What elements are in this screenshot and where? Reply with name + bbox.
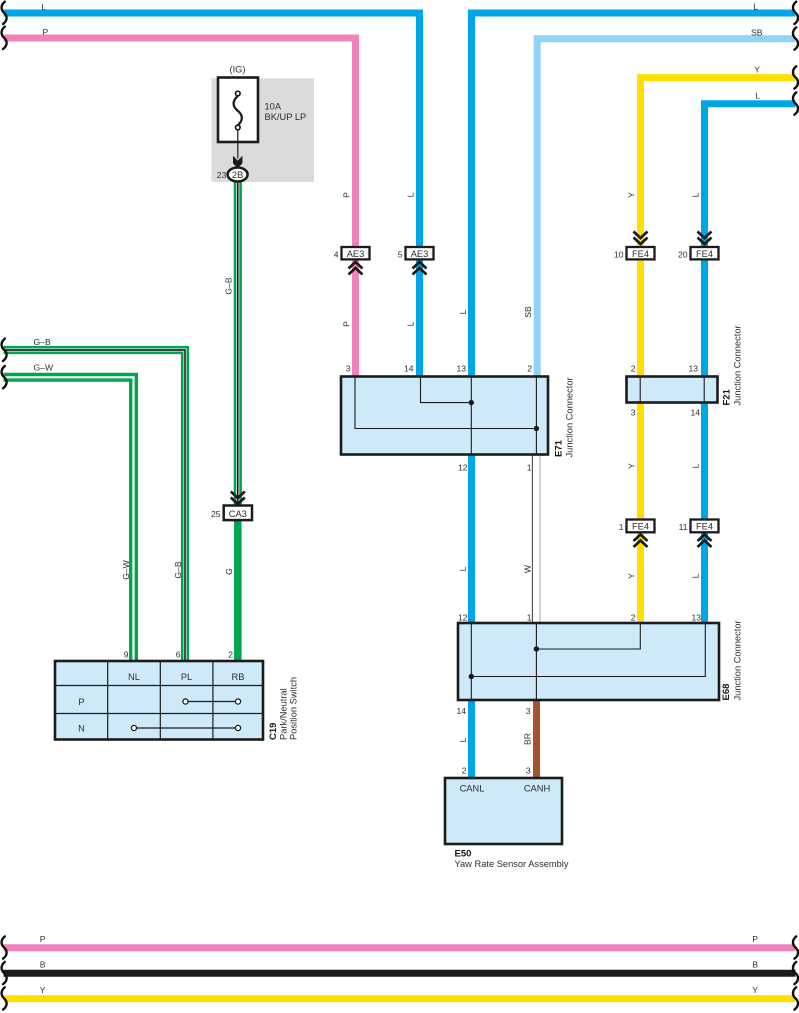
svg-text:12: 12 xyxy=(458,612,468,622)
svg-text:CANL: CANL xyxy=(460,784,485,794)
svg-text:L: L xyxy=(691,573,701,578)
wire Y top-right horizontal then down to F21 pin 2 xyxy=(641,78,796,377)
continuation squiggles right edge xyxy=(793,2,798,1010)
svg-text:B: B xyxy=(752,960,758,970)
svg-text:Park/Neutral: Park/Neutral xyxy=(279,688,289,740)
svg-text:L: L xyxy=(458,737,468,742)
svg-text:1: 1 xyxy=(527,612,532,622)
svg-text:13: 13 xyxy=(691,612,701,622)
E71 name label xyxy=(554,377,575,457)
wire P bottom rail xyxy=(4,944,796,951)
svg-text:3: 3 xyxy=(631,407,636,417)
E50 name label xyxy=(455,849,569,869)
svg-text:2: 2 xyxy=(631,363,636,373)
svg-text:C19: C19 xyxy=(268,723,279,740)
svg-text:13: 13 xyxy=(456,363,466,373)
connector AE3 pin 4 xyxy=(342,247,370,275)
svg-text:E71: E71 xyxy=(554,439,565,457)
svg-text:14: 14 xyxy=(690,407,700,417)
svg-text:2B: 2B xyxy=(232,170,243,180)
svg-text:AE3: AE3 xyxy=(347,249,365,259)
svg-text:Junction Connector: Junction Connector xyxy=(733,325,743,405)
svg-text:N: N xyxy=(78,724,85,734)
connector FE4 pin 20 xyxy=(691,232,719,260)
svg-text:P: P xyxy=(752,934,758,944)
svg-text:CA3: CA3 xyxy=(229,509,247,519)
svg-text:(IG): (IG) xyxy=(229,65,245,75)
connector FE4 pin 1 xyxy=(627,520,655,548)
wire L from F21 pin 14 to E68 pin 13 xyxy=(701,403,708,624)
svg-text:SB: SB xyxy=(523,306,533,318)
junction connector E68 xyxy=(458,623,719,700)
svg-text:L: L xyxy=(406,192,416,197)
svg-text:9: 9 xyxy=(124,649,129,659)
C19 pin labels xyxy=(124,649,234,659)
svg-text:G–B: G–B xyxy=(173,561,183,578)
wire L top-right horizontal then down to E71 pin 13 xyxy=(472,13,796,376)
wire P bottom continuation right xyxy=(793,936,798,958)
svg-text:5: 5 xyxy=(398,250,403,260)
svg-text:P: P xyxy=(342,321,352,327)
wire G-W left horizontal then down to C19 pin 9 xyxy=(4,377,134,661)
svg-text:L: L xyxy=(755,90,760,100)
svg-text:1: 1 xyxy=(527,462,532,472)
svg-text:1: 1 xyxy=(619,522,624,532)
arrow from fuse to 2B xyxy=(233,130,242,169)
junction connector E71 xyxy=(341,377,548,455)
wire P continuation left xyxy=(2,27,7,49)
svg-text:P: P xyxy=(78,697,84,707)
E68 pin labels xyxy=(456,612,701,716)
svg-text:P: P xyxy=(43,27,49,37)
svg-text:Y: Y xyxy=(627,463,637,469)
wire B bottom continuation right xyxy=(793,962,798,984)
switch C19 park/neutral position xyxy=(55,661,263,740)
svg-text:G–B: G–B xyxy=(34,337,51,347)
svg-text:12: 12 xyxy=(458,462,468,472)
svg-text:Y: Y xyxy=(627,573,637,579)
wire G-B from fuse 2B down to CA3 xyxy=(234,180,242,505)
svg-text:10: 10 xyxy=(614,250,624,260)
wire B bottom continuation left xyxy=(2,962,7,984)
wire SB top-right horizontal then down to E71 pin 2 xyxy=(537,39,795,376)
wire L continuation left xyxy=(2,2,7,24)
svg-text:L: L xyxy=(458,566,468,571)
svg-text:SB: SB xyxy=(751,28,763,38)
svg-text:Y: Y xyxy=(40,985,46,995)
svg-text:CANH: CANH xyxy=(524,784,550,794)
svg-text:3: 3 xyxy=(526,706,531,716)
connector CA3 pin 25 xyxy=(224,492,252,521)
svg-text:11: 11 xyxy=(679,522,688,532)
wire Y continuation right xyxy=(793,66,798,88)
continuation squiggles left edge xyxy=(2,2,7,1010)
svg-text:Y: Y xyxy=(752,985,758,995)
svg-text:G–B: G–B xyxy=(224,277,234,294)
wire Y bottom continuation right xyxy=(793,987,798,1009)
E50 pin labels xyxy=(462,765,531,775)
svg-text:Position Switch: Position Switch xyxy=(289,677,299,740)
wire G-W continuation left xyxy=(2,366,7,388)
svg-text:FE4: FE4 xyxy=(696,522,713,532)
svg-text:6: 6 xyxy=(176,649,181,659)
svg-text:BR: BR xyxy=(523,733,533,745)
connector AE3 pin 5 xyxy=(406,247,434,275)
svg-text:2: 2 xyxy=(631,612,636,622)
yaw rate sensor E50 xyxy=(445,778,562,844)
svg-text:14: 14 xyxy=(404,363,414,373)
svg-text:G–W: G–W xyxy=(34,362,54,372)
wire G from CA3 down to C19 pin 2 xyxy=(234,520,242,661)
wire L top-left horizontal then down to E71 pin 14 xyxy=(4,13,420,376)
svg-text:2: 2 xyxy=(462,765,467,775)
svg-text:L: L xyxy=(753,2,758,12)
svg-text:FE4: FE4 xyxy=(632,249,649,259)
svg-text:B: B xyxy=(40,960,46,970)
junction connector F21 xyxy=(627,377,718,403)
svg-text:RB: RB xyxy=(232,672,245,682)
svg-text:PL: PL xyxy=(181,672,192,682)
svg-text:P: P xyxy=(40,934,46,944)
svg-text:G–W: G–W xyxy=(121,559,131,579)
svg-text:25: 25 xyxy=(211,509,221,519)
wire P bottom continuation left xyxy=(2,936,7,958)
C19 contact N row xyxy=(131,725,240,730)
wire Y bottom continuation left xyxy=(2,987,7,1009)
wire L lower continuation right xyxy=(793,92,798,114)
wire G-B left horizontal then down to C19 pin 6 xyxy=(4,350,186,661)
svg-text:AE3: AE3 xyxy=(411,249,429,259)
svg-text:14: 14 xyxy=(456,706,466,716)
svg-text:NL: NL xyxy=(128,672,140,682)
wire BR from E68 pin 3 to E50 CANH xyxy=(533,700,540,778)
svg-text:E68: E68 xyxy=(721,684,732,701)
svg-text:F21: F21 xyxy=(722,388,733,405)
connector 2B oval xyxy=(228,168,248,182)
svg-text:3: 3 xyxy=(526,765,531,775)
fuse 10A BK/UP LP xyxy=(218,78,258,143)
F21 pin labels xyxy=(631,363,700,417)
connector FE4 pin 10 xyxy=(627,232,655,260)
svg-text:FE4: FE4 xyxy=(632,522,649,532)
svg-text:BK/UP LP: BK/UP LP xyxy=(265,112,307,122)
svg-text:Yaw Rate Sensor Assembly: Yaw Rate Sensor Assembly xyxy=(455,859,569,869)
wire SB continuation right xyxy=(793,27,798,49)
svg-text:P: P xyxy=(342,192,352,198)
C19 contact P row xyxy=(183,699,241,704)
svg-text:2: 2 xyxy=(228,649,233,659)
svg-text:4: 4 xyxy=(334,250,339,260)
wire Y bottom rail xyxy=(4,995,796,1002)
E68 name label xyxy=(721,620,743,700)
svg-text:FE4: FE4 xyxy=(696,249,713,259)
wire Y from F21 pin 3 to E68 pin 2 xyxy=(637,403,644,624)
svg-text:3: 3 xyxy=(346,363,351,373)
wire name labels (rotated) xyxy=(121,192,701,745)
wire L continuation right xyxy=(793,2,798,24)
svg-text:W: W xyxy=(523,564,533,573)
wire L from E71 pin 12 to E68 pin 12 xyxy=(468,454,475,623)
svg-text:Y: Y xyxy=(627,192,637,198)
wire L top-right lower horizontal then down to F21 pin 13 xyxy=(705,104,796,377)
wire P top-left horizontal then down to E71 pin 3 xyxy=(4,38,356,376)
wire B bottom rail xyxy=(4,970,796,977)
fuse block gray background xyxy=(211,78,314,182)
F21 name label xyxy=(722,325,743,405)
svg-text:L: L xyxy=(458,309,468,314)
svg-text:Junction Connector: Junction Connector xyxy=(565,377,575,457)
svg-text:G: G xyxy=(224,568,234,575)
svg-text:10A: 10A xyxy=(265,102,282,112)
svg-text:23: 23 xyxy=(217,170,227,180)
svg-text:L: L xyxy=(406,321,416,326)
svg-text:L: L xyxy=(42,2,47,12)
svg-text:2: 2 xyxy=(527,363,532,373)
svg-text:L: L xyxy=(691,463,701,468)
C19 name label xyxy=(268,677,299,740)
svg-text:13: 13 xyxy=(688,363,698,373)
svg-text:20: 20 xyxy=(678,250,688,260)
wire L from E68 pin 14 to E50 CANL xyxy=(468,700,475,778)
E71 pin labels xyxy=(346,363,533,472)
connector FE4 pin 11 xyxy=(691,520,719,548)
wire G-B continuation left xyxy=(2,339,7,361)
svg-text:L: L xyxy=(691,192,701,197)
svg-text:Y: Y xyxy=(754,64,760,74)
svg-text:Junction Connector: Junction Connector xyxy=(733,620,743,700)
wire W from E71 pin 1 to E68 pin 1 xyxy=(532,454,540,623)
